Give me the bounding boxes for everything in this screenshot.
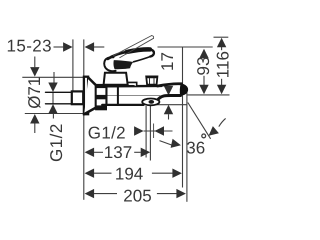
G1/2 wall leader arrows [48, 83, 57, 93]
spout bottom reference line y95 [188, 94, 230, 96]
outlet extension line a [145, 106, 147, 158]
svg-text:G1/2: G1/2 [47, 123, 66, 162]
dim 116 arrow tails [221, 46, 223, 50]
svg-text:Ø71: Ø71 [25, 77, 44, 109]
svg-text:205: 205 [123, 186, 151, 205]
dim 194 dimension line stubs [94, 172, 112, 174]
spout tip extension line (194) [182, 48, 184, 188]
union nut shading bands [95, 84, 106, 110]
diverter cup [146, 76, 157, 84]
svg-text:116: 116 [214, 51, 233, 78]
handle knob [104, 57, 115, 71]
phantom raised lever lines [113, 36, 153, 58]
outlet ellipse [142, 99, 159, 106]
dim 17 arrow tails [168, 114, 170, 119]
outlet extension line b [149, 106, 151, 161]
escutcheon cone [84, 78, 96, 115]
dim O71 arrows [30, 67, 39, 77]
arrowheads [30, 38, 226, 199]
dim 137 dimension line stubs [94, 151, 103, 153]
dim 205 arrows [85, 189, 95, 198]
svg-text:194: 194 [115, 165, 143, 184]
lever top reference line to 93 dim [158, 46, 213, 48]
svg-text:93: 93 [194, 57, 213, 76]
spout end extension line (205) [186, 90, 188, 202]
cartridge dome [104, 73, 128, 85]
raised lever reference tick for 116 dim [214, 36, 229, 38]
dim 93 arrow tail [203, 76, 205, 85]
dim O71 dimension line tails [34, 57, 36, 68]
dim 205 dimension line stubs [94, 193, 117, 195]
svg-text:G1/2: G1/2 [88, 123, 126, 142]
escutcheon flange [84, 77, 88, 115]
outlet extension line c short [153, 124, 155, 139]
body mid line [108, 95, 161, 97]
dim 15-23 dimension line tails [54, 46, 64, 48]
36 leader B curved tail [219, 118, 226, 126]
dim 137 arrows [85, 148, 95, 157]
36 leader arrow A [171, 139, 182, 150]
dim O71 top extension line [22, 76, 83, 78]
knob dark wedge [113, 60, 133, 69]
wall pipe lines [46, 91, 72, 93]
body outline [107, 85, 162, 88]
wall extension line above flange [83, 39, 85, 76]
dim 93 arrows [199, 49, 208, 59]
dim 15-23 arrows [63, 42, 73, 51]
outlet inner dot [149, 100, 155, 104]
lever tip [150, 49, 154, 56]
dome step [128, 82, 137, 86]
spout top lead-in [158, 84, 182, 86]
G1/2 wall label leader tails [53, 72, 55, 83]
dim 194 arrows [85, 169, 95, 178]
label degree sign [202, 134, 206, 138]
dimension texts [7, 37, 233, 206]
G1/2 row dimension line [144, 130, 173, 132]
36 leader A tail [160, 141, 172, 145]
svg-text:15-23: 15-23 [7, 37, 52, 56]
body seam [117, 86, 119, 105]
wall extension line below flange [83, 115, 85, 200]
svg-text:137: 137 [104, 143, 132, 162]
36 angle reference diagonal line [188, 103, 211, 139]
union nut [96, 85, 106, 110]
spout underside to outlet [156, 95, 180, 103]
dim O71 bottom extension line [25, 113, 83, 115]
dim 116 arrows [217, 38, 226, 48]
lever bottom edge [134, 57, 151, 62]
dim 15-23 extension line left [72, 39, 74, 91]
lever top bar [108, 52, 129, 59]
svg-text:36: 36 [186, 139, 205, 158]
svg-text:17: 17 [158, 52, 177, 71]
spout head filled [180, 84, 188, 96]
dim 17 arrows [164, 86, 173, 96]
36 leader arrow B [206, 126, 219, 139]
dim 17 lower reference line [156, 104, 187, 106]
wall union square [72, 91, 83, 104]
G1/2 row arrows [134, 126, 144, 135]
